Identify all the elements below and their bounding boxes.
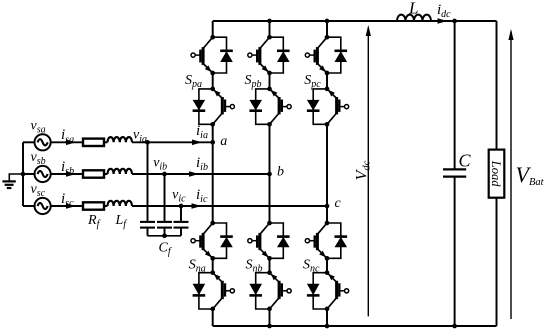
IGBT Sna upper <box>191 223 213 258</box>
wire: load top branch <box>496 21 498 150</box>
svg-text:L: L <box>408 0 418 18</box>
svg-text:C: C <box>459 150 472 170</box>
wire: bus to source vsa <box>23 141 35 143</box>
current arrow i_ic <box>192 203 202 209</box>
label Load <box>489 160 503 187</box>
wire: leg c top bus to switch Spc <box>326 21 328 37</box>
diode Spa upper antiparallel <box>213 37 233 73</box>
AC source vsa <box>35 134 51 150</box>
AC source vsb <box>35 166 51 182</box>
wire: Snb mid link <box>269 258 271 272</box>
wire: source vsb to resistor Rf <box>51 173 83 175</box>
wire: Snb to bottom bus <box>269 309 271 326</box>
svg-text:b: b <box>277 165 284 180</box>
diode Snc upper antiparallel <box>327 223 347 258</box>
wire: Spb mid link <box>269 73 271 89</box>
wire: source vsc to resistor Rf <box>51 205 83 207</box>
junction dot: bottom bus leg c <box>325 324 330 329</box>
junction dot: node via <box>145 140 150 145</box>
junction dots for IGBT Spc upper <box>325 35 330 40</box>
IGBT Spa lower <box>213 89 235 124</box>
IGBT Snc upper <box>305 223 327 258</box>
wire: filter star-point bus <box>148 235 182 237</box>
junction dots for IGBT Spc lower <box>325 87 330 92</box>
wire: bus to source vsc <box>23 205 35 207</box>
IGBT Spc upper <box>305 37 327 73</box>
current arrow i_dc <box>438 18 448 24</box>
IGBT Spb lower <box>270 89 292 124</box>
wire: Spa to node a <box>212 124 214 142</box>
wire: source neutral bus <box>22 142 24 206</box>
wire: source vsa to resistor Rf <box>51 141 83 143</box>
voltage arrow V_dc <box>366 25 371 316</box>
diode Spb upper antiparallel <box>270 37 290 73</box>
wire: cap C top branch <box>454 21 456 169</box>
wire: cap ib to star point <box>164 228 166 236</box>
junction dots for IGBT Spa lower <box>210 87 215 92</box>
diode Sna upper antiparallel <box>213 223 233 258</box>
wire: load bottom branch <box>496 198 498 326</box>
wire: Lf to node a (phase a line) <box>132 141 213 143</box>
wire: node c to switch Snc <box>326 206 328 223</box>
wire: Rf to Lf (phase a) <box>104 141 108 143</box>
wire: bus to source vsb <box>23 173 35 175</box>
IGBT Spc lower <box>327 89 349 124</box>
junction dot: node vib <box>162 172 167 177</box>
ground <box>2 174 23 188</box>
svg-text:c: c <box>335 196 342 211</box>
junction dot: node vic <box>179 204 184 209</box>
IGBT Snb upper <box>248 223 270 258</box>
svg-text:Load: Load <box>489 160 503 187</box>
wire: Spc mid link <box>326 73 328 89</box>
IGBT Spa upper <box>191 37 213 73</box>
junction dots for IGBT Sna upper <box>210 221 215 226</box>
IGBT Snb lower <box>270 273 292 309</box>
resistor Rf (phase a) <box>83 139 104 146</box>
wire: Spc to node c <box>326 124 328 206</box>
wire: cap ic to star point <box>180 228 182 236</box>
AC source vsc <box>35 198 51 214</box>
wire: cap ia to star point <box>147 228 149 236</box>
diode Spa lower antiparallel <box>193 89 213 124</box>
current arrow isb <box>66 171 76 177</box>
inductor Lf (phase b) <box>108 169 132 174</box>
diode Snb lower antiparallel <box>249 273 269 309</box>
junction dot: ground tap <box>21 172 26 177</box>
junction dot: top bus leg c <box>325 19 330 24</box>
wire: leg b top bus to switch Spb <box>269 21 271 37</box>
inductor Lf (phase a) <box>108 137 132 142</box>
wire: leg a top bus to switch Spa <box>212 21 214 37</box>
label V_dc <box>354 160 373 180</box>
wire: bottom DC bus <box>213 325 497 327</box>
junction dot: node b <box>267 172 272 177</box>
current arrow isc <box>66 203 76 209</box>
wire: vib down to filter cap <box>164 174 166 221</box>
wire: Sna to bottom bus <box>212 309 214 326</box>
junction dot: cap C top <box>452 19 457 24</box>
junction dots for IGBT Spb upper <box>267 35 272 40</box>
diode Spc upper antiparallel <box>327 37 347 73</box>
wire: Spb to node b <box>269 124 271 174</box>
junction dots for IGBT Snc lower <box>325 270 330 275</box>
svg-text:a: a <box>220 134 227 149</box>
junction dots for IGBT Snc upper <box>325 221 330 226</box>
junction dots for IGBT Spb lower <box>267 87 272 92</box>
voltage arrow V_Bat <box>508 29 513 319</box>
current arrow isa <box>66 140 76 146</box>
wire: top DC bus <box>213 20 497 22</box>
capacitor Cf (phase b) <box>157 222 172 228</box>
wire: Snc mid link <box>326 258 328 272</box>
junction dots for IGBT Snb lower <box>267 270 272 275</box>
junction dots for IGBT Spa upper <box>210 35 215 40</box>
junction dot: top bus leg b <box>267 19 272 24</box>
IGBT Sna lower <box>213 273 235 309</box>
diode Snc lower antiparallel <box>307 273 327 309</box>
capacitor C <box>443 169 466 176</box>
wire: Sna mid link <box>212 258 214 272</box>
junction dot: cap C bottom <box>452 324 457 329</box>
wire: Snc to bottom bus <box>326 309 328 326</box>
junction dot: node c <box>325 204 330 209</box>
resistor Rf (phase c) <box>83 202 104 209</box>
wire: vic down to filter cap <box>180 206 182 221</box>
current arrow i_ia <box>192 140 202 146</box>
diode Snb upper antiparallel <box>270 223 290 258</box>
IGBT Snc lower <box>327 273 349 309</box>
current arrow i_ib <box>189 171 199 177</box>
wire: Rf to Lf (phase b) <box>104 173 108 175</box>
junction dot: bottom bus leg b <box>267 324 272 329</box>
diode Spb lower antiparallel <box>249 89 269 124</box>
wire: node a to switch Sna <box>212 142 214 223</box>
wire: via down to filter cap <box>147 142 149 221</box>
junction dots for IGBT Snb upper <box>267 221 272 226</box>
junction dot: node a <box>210 140 215 145</box>
capacitor Cf (phase c) <box>174 222 189 228</box>
wire: Spa mid link <box>212 73 214 89</box>
inductor Lf (phase c) <box>108 201 132 206</box>
wire: Lf to node b (phase b line) <box>132 173 270 175</box>
capacitor Cf (phase a) <box>140 222 155 228</box>
junction dots for IGBT Sna lower <box>210 270 215 275</box>
inductor L (dc link) <box>397 15 431 21</box>
wire: Rf to Lf (phase c) <box>104 205 108 207</box>
diode Spc lower antiparallel <box>307 89 327 124</box>
IGBT Spb upper <box>248 37 270 73</box>
wire: Lf to node c (phase c line) <box>132 205 327 207</box>
wire: node b to switch Snb <box>269 174 271 223</box>
resistor Rf (phase b) <box>83 170 104 177</box>
diode Sna lower antiparallel <box>193 273 213 309</box>
wire: cap C bottom branch <box>454 177 456 326</box>
junction dot: star point <box>162 233 167 238</box>
load (box) <box>489 150 505 198</box>
